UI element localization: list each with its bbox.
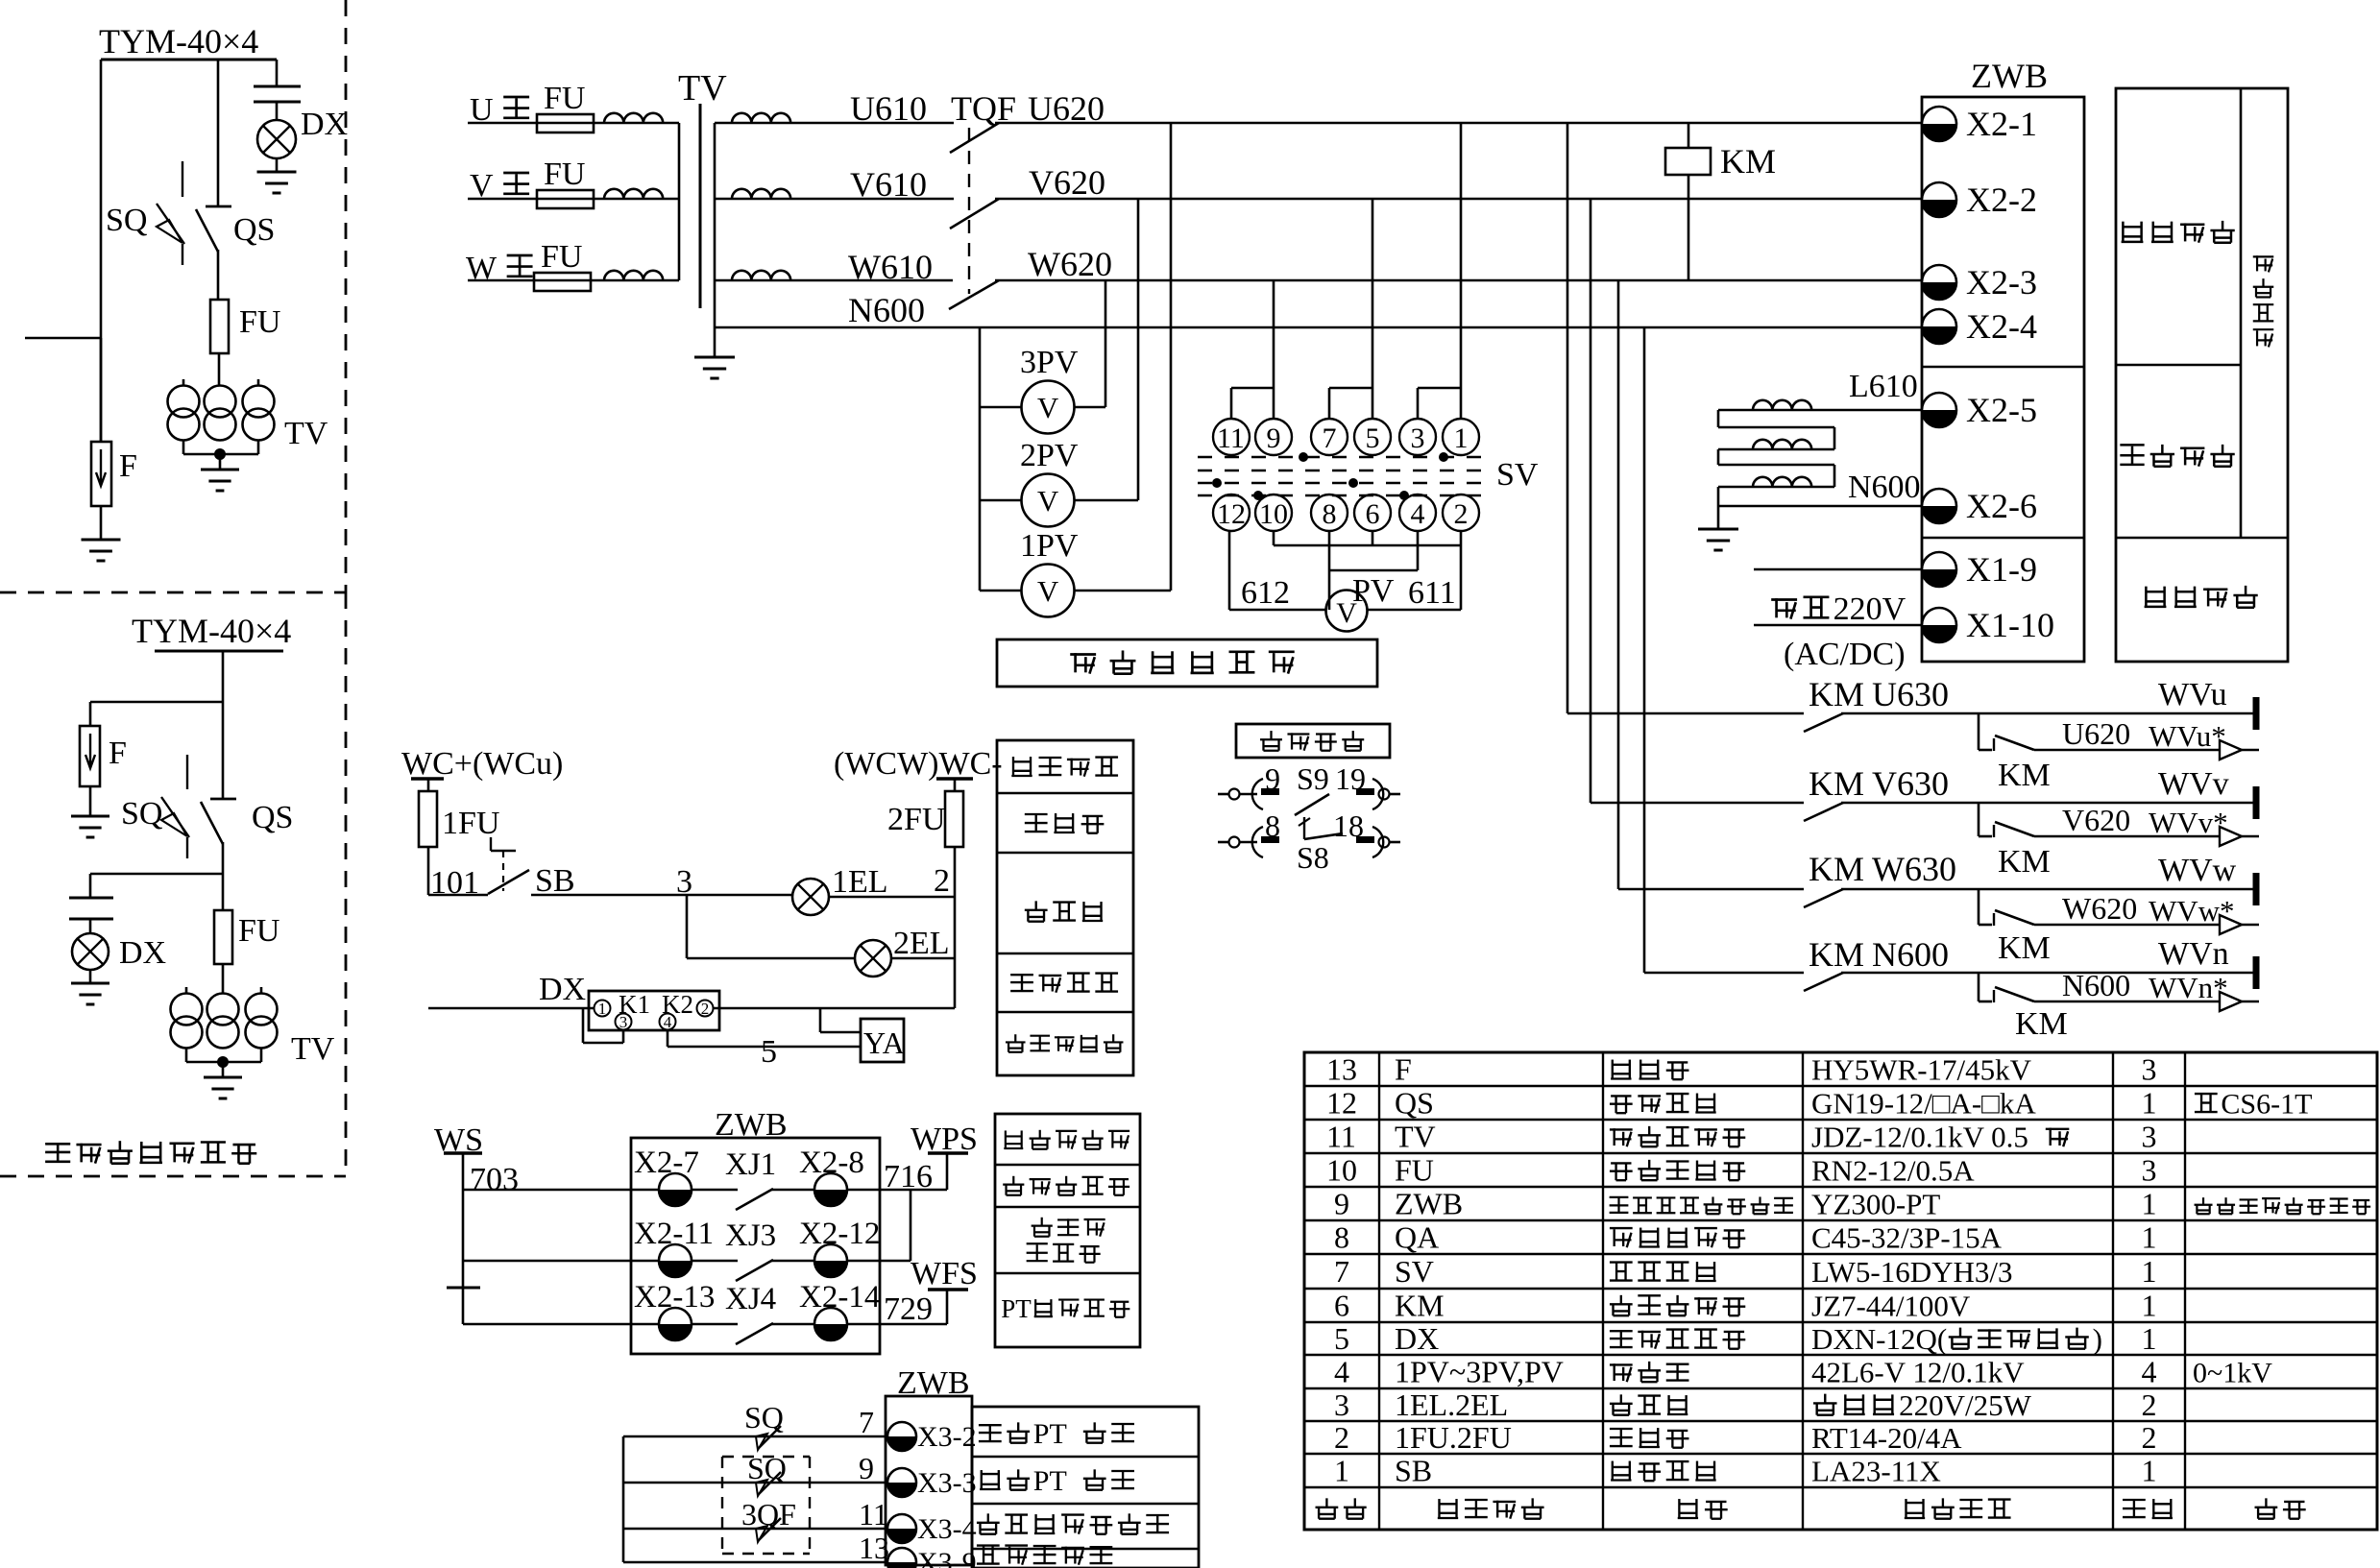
contact KM starred row WVv* xyxy=(1978,803,1980,836)
svg-text:XJ4: XJ4 xyxy=(725,1282,776,1316)
TV star point + ground (box2) xyxy=(185,1048,188,1062)
svg-text:2: 2 xyxy=(2142,1420,2157,1455)
wire left bracket xyxy=(622,1436,625,1562)
transformer TV (box1) 3x two-winding xyxy=(168,386,200,418)
svg-text:CS6-1T: CS6-1T xyxy=(2221,1089,2312,1121)
inductor primary winding xyxy=(604,189,663,199)
switch SQ interlock symbol (box2) xyxy=(186,755,188,789)
contact KM starred row WVu* xyxy=(1978,713,1980,750)
svg-text:5: 5 xyxy=(1366,422,1380,454)
svg-text:1: 1 xyxy=(2142,1321,2157,1356)
contact KM starred row WVw* xyxy=(1978,889,1980,925)
wire 611 to PV xyxy=(1367,609,1461,612)
svg-text:N600: N600 xyxy=(1848,470,1921,505)
switch SV top contact stubs xyxy=(1231,387,1274,390)
svg-text:X1-10: X1-10 xyxy=(1966,606,2054,644)
svg-text:(AC/DC): (AC/DC) xyxy=(1784,637,1906,672)
svg-text:11: 11 xyxy=(859,1497,888,1532)
switch SV contact 6 xyxy=(1354,495,1391,531)
svg-text:X3-9: X3-9 xyxy=(917,1547,977,1568)
svg-text:RN2-12/0.5A: RN2-12/0.5A xyxy=(1811,1154,1975,1188)
svg-text:QS: QS xyxy=(1395,1086,1434,1121)
terminal X1-10 xyxy=(1922,608,1956,642)
svg-text:DX: DX xyxy=(539,972,586,1007)
switch SV contact 1 xyxy=(1443,419,1479,455)
function box right (voltage circuit) xyxy=(2116,88,2288,662)
svg-text:X3-2: X3-2 xyxy=(917,1421,977,1453)
wire W620 dropper xyxy=(1617,280,1620,889)
svg-text:11: 11 xyxy=(1217,422,1245,454)
wire 101 line xyxy=(428,894,488,897)
alarm labels column xyxy=(995,1114,1140,1347)
terminal X2-6 xyxy=(1922,489,1956,523)
svg-text:9: 9 xyxy=(1265,761,1280,796)
svg-text:X2-8: X2-8 xyxy=(799,1146,864,1180)
wire to DX (box2) xyxy=(90,873,223,876)
svg-text:2: 2 xyxy=(934,863,950,899)
wire N600 to X2-6 xyxy=(1718,505,1922,508)
wire QS to FU xyxy=(217,250,220,300)
fuse FU (box1) xyxy=(210,300,229,353)
svg-text:WVw: WVw xyxy=(2158,853,2237,888)
svg-text:7: 7 xyxy=(1334,1254,1349,1289)
svg-text:10: 10 xyxy=(1326,1153,1357,1188)
svg-text:FU: FU xyxy=(1395,1153,1434,1188)
svg-text:10: 10 xyxy=(1259,498,1288,530)
svg-text:3PV: 3PV xyxy=(1020,345,1079,380)
lamp 1EL xyxy=(792,879,829,915)
contact XJ4 xyxy=(692,1323,738,1326)
svg-text:2EL: 2EL xyxy=(893,926,950,961)
svg-text:XJ1: XJ1 xyxy=(725,1147,776,1182)
wire SV pair 3-1 to U620 xyxy=(1460,123,1463,388)
ground under F (box2) xyxy=(89,786,92,816)
svg-text:SV: SV xyxy=(1496,457,1539,493)
wire 716 to WPS xyxy=(847,1189,947,1192)
switch SV contact 3 xyxy=(1399,419,1436,455)
wire SV lower connections net 612 xyxy=(1328,531,1331,610)
svg-text:YA: YA xyxy=(863,1025,905,1060)
wire 1EL to wire2 xyxy=(829,896,955,899)
svg-text:K1: K1 xyxy=(619,990,650,1019)
position labels column xyxy=(972,1407,1199,1568)
switch SB knob xyxy=(488,870,529,894)
svg-text:V620: V620 xyxy=(2062,803,2130,837)
svg-text:W620: W620 xyxy=(1028,245,1112,283)
svg-text:DX: DX xyxy=(119,935,166,971)
wire 2EL to WC- xyxy=(891,957,955,960)
wire row X3-9 xyxy=(623,1561,887,1564)
svg-text:KM: KM xyxy=(1998,844,2051,880)
inductor primary winding xyxy=(604,271,663,280)
arrester F (box1) xyxy=(100,338,103,442)
dashed group box SQ/3QF xyxy=(722,1456,810,1458)
svg-text:FU: FU xyxy=(544,81,585,116)
wire SV pair 7-5 to V620 xyxy=(1372,199,1374,388)
svg-text:WVn*: WVn* xyxy=(2149,971,2228,1004)
arrester F (box2) xyxy=(80,726,100,786)
svg-text:12: 12 xyxy=(1217,498,1246,530)
dashed frame box1 xyxy=(345,0,348,592)
terminal bar WVw xyxy=(2253,873,2260,905)
svg-text:PV: PV xyxy=(1352,573,1395,609)
svg-text:K2: K2 xyxy=(662,990,693,1019)
svg-text:U630: U630 xyxy=(1872,675,1949,713)
ground zero-sequence winding xyxy=(1717,506,1720,529)
wire SB to node 3 xyxy=(531,894,687,897)
terminal 4 (DX) xyxy=(660,1014,676,1030)
contact KM row W630 xyxy=(1618,888,1804,891)
svg-text:QS: QS xyxy=(233,212,275,248)
svg-text:3: 3 xyxy=(1411,422,1425,454)
wire QS down (box2) xyxy=(222,842,225,910)
svg-text:KM: KM xyxy=(1809,764,1864,803)
svg-text:FU: FU xyxy=(238,913,279,949)
svg-text:DX: DX xyxy=(301,107,348,142)
svg-text:W630: W630 xyxy=(1872,850,1956,888)
svg-text:6: 6 xyxy=(1366,498,1380,530)
wire phase line xyxy=(468,279,679,282)
terminal bar WVn xyxy=(2253,956,2260,989)
svg-text:TV: TV xyxy=(1395,1120,1436,1154)
switch SV contact 11 xyxy=(1213,419,1250,455)
wire phase line xyxy=(468,198,679,201)
contact KM row N600 xyxy=(1644,972,1804,975)
svg-text:C45-32/3P-15A: C45-32/3P-15A xyxy=(1811,1221,2003,1255)
wire DX2 to WC- xyxy=(713,1007,955,1010)
wire meter to phase xyxy=(1074,499,1138,502)
terminal 3 (DX) xyxy=(616,1014,632,1030)
wire phase line xyxy=(468,122,679,125)
svg-text:WC+(WCu): WC+(WCu) xyxy=(401,746,563,782)
wire WC+ to DX1 xyxy=(428,1007,594,1010)
svg-text:KM: KM xyxy=(1720,142,1776,181)
wire W610 segment xyxy=(715,279,953,282)
svg-text:1: 1 xyxy=(1334,1454,1349,1488)
svg-text:3: 3 xyxy=(2142,1120,2157,1154)
terminal X3-2 xyxy=(887,1422,916,1451)
svg-text:X2-12: X2-12 xyxy=(799,1217,880,1251)
switch SV contact 10 xyxy=(1255,495,1292,531)
svg-text:X2-14: X2-14 xyxy=(799,1280,880,1315)
svg-text:220V/25W: 220V/25W xyxy=(1899,1388,2032,1422)
blade S9 xyxy=(1295,794,1329,815)
svg-text:V610: V610 xyxy=(850,165,927,204)
fuse FU (box2) xyxy=(214,910,232,964)
svg-text:703: 703 xyxy=(470,1162,519,1197)
wire V610 segment xyxy=(715,198,954,201)
svg-text:WVn: WVn xyxy=(2158,936,2229,972)
svg-text:PT: PT xyxy=(1033,1418,1067,1450)
wire row XJ4 xyxy=(463,1323,659,1326)
inductor primary winding xyxy=(604,113,663,123)
svg-text:QA: QA xyxy=(1395,1220,1439,1255)
fuse 2FU xyxy=(954,779,957,791)
ground under F (box1) xyxy=(100,506,103,540)
svg-text:6: 6 xyxy=(1334,1289,1349,1323)
svg-text:SQ: SQ xyxy=(106,203,147,238)
svg-text:3QF: 3QF xyxy=(741,1497,796,1532)
fuse FU (HV) xyxy=(534,273,591,291)
wire 612 to PV xyxy=(1229,609,1326,612)
contact XJ3 xyxy=(692,1260,738,1263)
svg-text:U610: U610 xyxy=(850,89,927,128)
wire meter to phase xyxy=(1074,590,1171,592)
svg-text:0~1kV: 0~1kV xyxy=(2193,1358,2272,1389)
wire SV lower connections net 611 xyxy=(1273,531,1275,545)
svg-text:X2-11: X2-11 xyxy=(634,1217,714,1251)
wire meter to phase xyxy=(1074,406,1105,409)
svg-text:13: 13 xyxy=(859,1531,889,1565)
svg-text:7: 7 xyxy=(859,1405,874,1439)
voltmeter 1PV xyxy=(980,590,1022,592)
wire U620 dropper xyxy=(1566,123,1569,713)
svg-text:1: 1 xyxy=(598,1000,607,1018)
switch SV contact 12 xyxy=(1213,495,1250,531)
wire SV pair 11-9 to W620 xyxy=(1273,280,1275,388)
svg-text:TYM-40×4: TYM-40×4 xyxy=(132,612,291,650)
caption primary system diagram xyxy=(45,1143,70,1146)
svg-text:4: 4 xyxy=(2142,1355,2157,1389)
switch SQ interlock symbol (box1) xyxy=(182,161,183,197)
svg-text:8: 8 xyxy=(1334,1220,1349,1255)
svg-text:L610: L610 xyxy=(1849,369,1918,404)
wire bus to QS xyxy=(217,60,220,206)
svg-text:2FU: 2FU xyxy=(887,802,945,837)
svg-text:PT: PT xyxy=(1001,1294,1032,1323)
inductor secondary winding xyxy=(732,113,790,123)
wire FU to TV (box2) xyxy=(222,964,225,994)
svg-text:11: 11 xyxy=(1326,1120,1356,1154)
svg-text:V620: V620 xyxy=(1029,163,1105,202)
terminal bar WVu xyxy=(2253,697,2260,730)
terminal block ZWB (X2/X1) xyxy=(1922,97,2084,662)
svg-text:S8: S8 xyxy=(1297,840,1329,875)
svg-text:QS: QS xyxy=(252,800,293,835)
svg-text:SV: SV xyxy=(1395,1254,1434,1289)
svg-text:13: 13 xyxy=(1326,1052,1357,1087)
junction dots on SV xyxy=(1299,452,1308,462)
svg-text:X2-3: X2-3 xyxy=(1966,263,2037,302)
svg-text:F: F xyxy=(109,736,127,771)
svg-text:WFS: WFS xyxy=(911,1256,978,1291)
svg-text:1: 1 xyxy=(2142,1220,2157,1255)
wire branch to YA xyxy=(819,1008,822,1032)
wire to F (box2) xyxy=(90,701,223,704)
svg-text:FU: FU xyxy=(541,239,582,275)
solenoid lock YA xyxy=(861,1019,904,1062)
svg-text:V: V xyxy=(1037,574,1059,608)
lamp 2EL xyxy=(855,940,891,977)
wire row X3-3 xyxy=(623,1482,887,1484)
terminal X2-1 xyxy=(1922,107,1956,141)
busbar TYM (box1) xyxy=(101,59,277,61)
svg-text:X3-3: X3-3 xyxy=(917,1467,977,1499)
wire row X3-4 xyxy=(623,1528,887,1531)
switch SV contact 2 xyxy=(1443,495,1479,531)
svg-text:DXN-12Q(: DXN-12Q( xyxy=(1811,1322,1947,1356)
transformer TV core line xyxy=(699,104,702,308)
disconnector QS (box1) xyxy=(206,205,231,208)
svg-text:8: 8 xyxy=(1323,498,1337,530)
wire V620 dropper xyxy=(1590,199,1592,803)
svg-text:KM: KM xyxy=(1998,758,2051,793)
terminal X2-5 xyxy=(1922,393,1956,427)
terminal X2-8 xyxy=(814,1173,847,1206)
wire N600 dropper to meters xyxy=(979,327,982,591)
svg-text:W610: W610 xyxy=(848,248,933,286)
svg-text:X3-4: X3-4 xyxy=(917,1513,977,1545)
terminal X2-11 xyxy=(659,1244,692,1277)
svg-text:): ) xyxy=(2093,1322,2102,1356)
svg-text:3: 3 xyxy=(1334,1387,1349,1422)
svg-text:TYM-40×4: TYM-40×4 xyxy=(99,22,258,60)
contact KM starred row WVn* xyxy=(1978,973,1980,1001)
fuse FU (HV) xyxy=(537,114,594,133)
wire node3 to 1EL xyxy=(687,894,792,897)
svg-text:2: 2 xyxy=(1454,498,1469,530)
svg-text:WVw*: WVw* xyxy=(2149,894,2235,928)
terminal X2-12 xyxy=(814,1244,847,1277)
svg-text:2: 2 xyxy=(1334,1420,1349,1455)
svg-text:2: 2 xyxy=(2142,1387,2157,1422)
svg-text:WVv: WVv xyxy=(2158,766,2229,802)
wire bus down (box2) xyxy=(222,651,225,799)
svg-text:612: 612 xyxy=(1241,575,1290,611)
terminal X2-2 xyxy=(1922,182,1956,217)
terminal X2-7 xyxy=(659,1173,692,1206)
svg-text:42L6-V 12/0.1kV: 42L6-V 12/0.1kV xyxy=(1811,1356,2025,1389)
svg-text:19: 19 xyxy=(1335,761,1366,796)
wire TV secondary bus xyxy=(714,123,716,357)
wire V620 xyxy=(995,198,1922,201)
switch SV contact 5 xyxy=(1354,419,1391,455)
svg-text:8: 8 xyxy=(1265,808,1280,843)
transformer TV (box2) xyxy=(171,994,203,1025)
wire row X3-2 xyxy=(623,1435,887,1438)
wire 729 to WFS xyxy=(847,1323,947,1326)
terminal X2-13 xyxy=(659,1308,692,1340)
svg-text:611: 611 xyxy=(1408,575,1456,611)
breaker TQF blade V xyxy=(950,199,999,229)
svg-text:2PV: 2PV xyxy=(1020,438,1079,473)
wire left stub xyxy=(25,337,101,340)
lamp DX (box1) xyxy=(257,120,296,158)
svg-text:N600: N600 xyxy=(2062,968,2130,1002)
svg-text:V630: V630 xyxy=(1872,764,1949,803)
terminal bar WVv xyxy=(2253,786,2260,819)
capacitor (DX branch box2) xyxy=(69,897,113,900)
ground under DX (box2) xyxy=(89,970,92,983)
svg-text:LA23-11X: LA23-11X xyxy=(1811,1455,1941,1488)
terminal 2 (DX) xyxy=(697,1001,714,1017)
svg-text:716: 716 xyxy=(884,1159,933,1194)
svg-text:1: 1 xyxy=(2142,1187,2157,1221)
svg-text:KM: KM xyxy=(1809,675,1864,713)
svg-text:1FU: 1FU xyxy=(442,806,499,841)
wire X1-9 supply xyxy=(1754,568,1922,571)
ground under DX (box1) xyxy=(276,158,279,172)
wire W620 xyxy=(995,279,1922,282)
winding zero-sequence L610 xyxy=(1718,409,1922,412)
svg-text:WVu: WVu xyxy=(2158,677,2227,712)
svg-text:XJ3: XJ3 xyxy=(725,1218,776,1253)
svg-text:12: 12 xyxy=(1326,1086,1357,1121)
svg-text:1FU.2FU: 1FU.2FU xyxy=(1395,1420,1512,1455)
label voltage circuit vertical xyxy=(2253,255,2274,257)
busbar TYM (box2) xyxy=(155,650,283,653)
ground TV secondary xyxy=(694,356,735,359)
wire node3 down to 2EL xyxy=(686,895,689,958)
svg-text:KM: KM xyxy=(1395,1289,1445,1323)
svg-text:WVu*: WVu* xyxy=(2149,719,2226,753)
label power 220V xyxy=(1771,598,1797,601)
svg-text:V: V xyxy=(1037,391,1059,424)
terminal X2-14 xyxy=(814,1308,847,1340)
svg-text:2: 2 xyxy=(701,1000,710,1018)
switch SV contact 7 xyxy=(1311,419,1348,455)
svg-text:FU: FU xyxy=(239,304,280,340)
svg-text:9: 9 xyxy=(1334,1187,1349,1221)
svg-text:W620: W620 xyxy=(2062,891,2137,926)
terminal X2-3 xyxy=(1922,265,1956,300)
svg-text:KM: KM xyxy=(1809,935,1864,974)
inductor secondary winding xyxy=(732,271,790,280)
switch SV contact dashes xyxy=(1198,456,1493,459)
svg-text:729: 729 xyxy=(884,1291,933,1327)
svg-text:5: 5 xyxy=(1334,1321,1349,1356)
table header row xyxy=(1325,1498,1327,1507)
terminal X2-4 xyxy=(1922,309,1956,344)
svg-text:X2-5: X2-5 xyxy=(1966,391,2037,429)
svg-text:1: 1 xyxy=(2142,1254,2157,1289)
svg-text:N600: N600 xyxy=(1872,935,1949,974)
svg-text:GN19-12/□A-□kA: GN19-12/□A-□kA xyxy=(1811,1087,2036,1121)
capacitor (DX branch box1) xyxy=(254,85,301,88)
svg-text:1: 1 xyxy=(2142,1086,2157,1121)
inductor secondary winding xyxy=(732,189,790,199)
svg-text:3: 3 xyxy=(2142,1052,2157,1087)
svg-text:X2-4: X2-4 xyxy=(1966,307,2037,346)
svg-text:TV: TV xyxy=(284,416,328,451)
svg-text:KM: KM xyxy=(2015,1006,2068,1042)
svg-text:ZWB: ZWB xyxy=(1971,57,2048,95)
wire bus left drop xyxy=(100,60,103,442)
switch SV contact 8 xyxy=(1311,495,1348,531)
svg-text:F: F xyxy=(1395,1052,1412,1087)
terminal X3-4 xyxy=(887,1514,916,1543)
fuse FU (HV) xyxy=(537,190,594,208)
svg-text:SB: SB xyxy=(1395,1454,1432,1488)
svg-text:SB: SB xyxy=(535,863,575,899)
lamp DX (box2) xyxy=(72,933,109,970)
table parts list frame xyxy=(1304,1052,2377,1530)
svg-text:LW5-16DYH3/3: LW5-16DYH3/3 xyxy=(1811,1255,2013,1289)
svg-text:TV: TV xyxy=(678,68,727,109)
voltmeter PV xyxy=(1326,591,1368,632)
svg-text:1: 1 xyxy=(2142,1454,2157,1488)
wire N600 dropper xyxy=(1643,327,1646,973)
svg-text:JDZ-12/0.1kV 0.5: JDZ-12/0.1kV 0.5 xyxy=(1811,1121,2028,1154)
svg-text:SQ: SQ xyxy=(121,796,162,832)
svg-text:X2-6: X2-6 xyxy=(1966,487,2037,525)
svg-text:TV: TV xyxy=(291,1031,335,1067)
wire 5 DX4 to YA xyxy=(667,1030,669,1047)
svg-text:F: F xyxy=(119,448,137,484)
svg-text:PT: PT xyxy=(1033,1465,1067,1497)
svg-text:1EL.2EL: 1EL.2EL xyxy=(1395,1387,1508,1422)
wire X2-12 join 716 xyxy=(847,1260,911,1263)
